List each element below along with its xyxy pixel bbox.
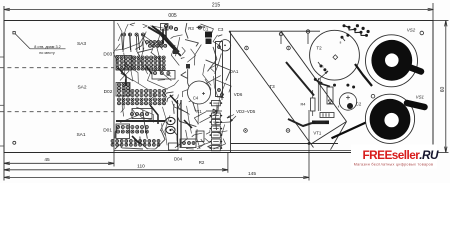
diode bridge VD2-VD5 rectifier column	[210, 101, 223, 151]
svg-text:VD2–VD5: VD2–VD5	[236, 109, 256, 114]
svg-text:T2: T2	[316, 46, 322, 51]
capacitor C1 label	[203, 27, 209, 32]
svg-text:SA1: SA1	[76, 132, 85, 138]
transformer T3 outline	[229, 31, 347, 150]
wire tick mark a	[0, 56, 4, 58]
wire tick mark c	[0, 145, 4, 147]
op-amp DA1 body	[216, 42, 223, 97]
note 8 holes leader	[13, 32, 66, 55]
board outline	[4, 21, 433, 153]
thyristor VS1 label	[416, 94, 425, 99]
component box group left	[116, 24, 175, 139]
wire bottom horizontal trace	[231, 142, 339, 145]
resistor R3 label	[188, 26, 194, 31]
svg-text:C4: C4	[193, 96, 199, 101]
wire to VS2	[355, 64, 372, 86]
wire thick vertical pair trace	[116, 100, 181, 147]
svg-text:D01: D01	[103, 128, 112, 134]
wire dashed section line lower	[0, 111, 114, 113]
svg-text:FREEseller.RU: FREEseller.RU	[363, 148, 439, 162]
svg-text:VD6: VD6	[234, 92, 243, 97]
dimension 005 label	[168, 13, 177, 19]
capacitor C3 body	[219, 40, 230, 51]
diode horizontal	[206, 109, 222, 113]
hole near VS2	[420, 31, 424, 35]
capacitor C2 body	[339, 93, 356, 110]
op-amp DA1 label	[230, 69, 239, 74]
logo subtitle	[354, 162, 434, 166]
resistor R2 label	[199, 160, 205, 165]
svg-text:C3: C3	[218, 27, 224, 32]
hole near VS1	[371, 94, 375, 98]
wire vertical trace to dim	[308, 110, 310, 181]
capacitor C4 label	[193, 92, 205, 101]
logo FREEseller.RU	[363, 148, 439, 162]
switch SA2 label	[77, 85, 86, 91]
connector D01 label	[103, 128, 112, 134]
dimension 145	[4, 171, 309, 178]
svg-text:VT1: VT1	[313, 131, 321, 136]
transformer T3 label	[269, 84, 275, 89]
svg-text:SA3: SA3	[77, 41, 86, 47]
capacitor C3 label	[218, 27, 224, 32]
wire to VS1	[332, 122, 369, 139]
switch SA1 label	[76, 132, 85, 138]
svg-text:110: 110	[137, 164, 145, 170]
thyristor VS2 body	[366, 35, 422, 87]
thyristor VS1 body	[365, 94, 424, 143]
dimension 60 board height	[438, 21, 449, 153]
svg-text:DA1: DA1	[230, 69, 239, 74]
transistor VT1 body	[312, 113, 334, 125]
svg-text:SA2: SA2	[77, 85, 86, 91]
svg-text:45: 45	[44, 157, 50, 163]
svg-text:T3: T3	[269, 84, 275, 89]
trace cluster left	[113, 23, 231, 149]
svg-text:R1: R1	[196, 109, 202, 114]
svg-text:R3: R3	[188, 26, 194, 31]
logo background	[351, 145, 437, 169]
dimension 45	[4, 153, 114, 167]
node cluster right divider	[230, 31, 232, 152]
wire right extension line top	[433, 3, 449, 21]
svg-text:R2: R2	[199, 160, 205, 165]
connector D04 label	[174, 157, 183, 162]
connector D02 label	[104, 89, 113, 95]
svg-text:D02: D02	[104, 89, 113, 95]
pad rows	[111, 24, 201, 146]
wire bent traces top right	[281, 24, 370, 44]
diodes VD2-VD5 label	[227, 109, 256, 122]
resistor R1 label	[196, 109, 202, 114]
switch SA3 label	[77, 41, 86, 47]
svg-text:60: 60	[440, 87, 446, 93]
svg-text:C1: C1	[203, 27, 209, 32]
svg-text:R4: R4	[301, 102, 307, 107]
wire left extension line	[3, 6, 5, 181]
wire tick mark b	[0, 104, 4, 106]
svg-text:D03: D03	[103, 51, 112, 57]
transformer T2 pads	[279, 30, 355, 89]
svg-text:Магазин бесплатных цифровых то: Магазин бесплатных цифровых товаров	[354, 162, 434, 166]
transistor VT1 label	[313, 131, 321, 136]
svg-text:145: 145	[248, 171, 256, 177]
resistor R4 body	[301, 90, 315, 116]
capacitor C4 body	[188, 81, 211, 104]
dimension 110	[4, 153, 228, 173]
node left panel divider	[113, 21, 115, 153]
svg-text:по месту: по месту	[39, 51, 55, 55]
wire thick trace to VT1	[288, 119, 312, 126]
diode VD6 symbol	[220, 92, 224, 100]
svg-text:VS2: VS2	[407, 28, 416, 33]
oval pads	[166, 117, 175, 133]
dimension 215 overall length	[4, 3, 434, 11]
mounting holes T3	[244, 46, 291, 132]
svg-text:215: 215	[212, 3, 221, 9]
connector box D04 area	[169, 131, 205, 150]
connector D03 label	[103, 51, 112, 57]
diode VD6 label	[234, 92, 243, 97]
hole marker	[13, 141, 16, 144]
wire thick diagonal trace	[286, 62, 314, 96]
diode VD1 body	[327, 87, 340, 109]
wire dashed section line upper	[0, 67, 114, 69]
svg-text:8 отв. диам 3.2: 8 отв. диам 3.2	[34, 45, 60, 49]
svg-text:VS1: VS1	[416, 94, 425, 99]
svg-text:D04: D04	[174, 157, 183, 162]
capacitor C1 black pads	[205, 32, 212, 45]
svg-text:C2: C2	[356, 102, 362, 107]
transformer T2 body	[310, 30, 360, 81]
transformer T2 label	[316, 46, 322, 51]
svg-text:005: 005	[168, 13, 177, 19]
wire vertical pair	[318, 78, 320, 111]
capacitor C2 label	[356, 102, 362, 107]
thyristor VS2 label	[407, 28, 416, 33]
